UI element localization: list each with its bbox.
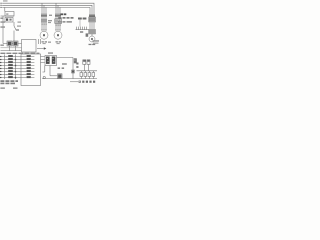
wire right verticals to contactor bbox=[90, 23, 94, 30]
small box mid bbox=[72, 70, 75, 73]
fuse box 2 bbox=[84, 73, 87, 77]
motor letters bbox=[43, 34, 45, 36]
text right of disconnect bbox=[18, 22, 22, 23]
label left of rail bbox=[76, 63, 78, 65]
overload outlines group A bbox=[41, 19, 46, 22]
relay box content bbox=[8, 42, 12, 46]
OL tick row 2 group A bbox=[42, 23, 43, 25]
wire from starter right bbox=[57, 57, 74, 59]
wire right vertical of pair bbox=[13, 22, 15, 26]
wire L small bbox=[43, 66, 45, 73]
dark details bbox=[0, 0, 99, 89]
contact bar group B bbox=[55, 13, 61, 16]
wire left vertical long bbox=[2, 16, 4, 44]
strip A side text specks bbox=[6, 56, 8, 75]
bottom-left text block rows bbox=[0, 80, 18, 84]
wire drops motor group B bbox=[55, 3, 57, 31]
wire control bus bbox=[1, 50, 22, 52]
contactor right outline bbox=[89, 30, 96, 34]
squiggle right bbox=[70, 81, 80, 82]
wire branch bus right bbox=[76, 29, 89, 31]
label right of rows bbox=[78, 18, 82, 20]
motor M1 circle bbox=[40, 31, 48, 39]
aux box below bbox=[5, 18, 13, 23]
comb text below bbox=[80, 31, 83, 33]
text under motor B bbox=[56, 41, 58, 42]
text under bus right bbox=[79, 81, 96, 83]
wire stubs right of enclosure bbox=[41, 57, 45, 63]
comp on bus bbox=[58, 74, 63, 79]
contactor marks right col bbox=[89, 30, 90, 33]
starter coils dark bbox=[46, 57, 50, 64]
enclosure box bbox=[21, 54, 41, 86]
disconnect diag bbox=[14, 26, 16, 30]
text left of mid switch bbox=[62, 63, 67, 64]
wire control row bbox=[3, 43, 22, 45]
OL tick row 2 group B bbox=[56, 24, 57, 26]
right pair box 1 bbox=[83, 60, 86, 65]
text left col 1 bbox=[0, 21, 5, 22]
text between groups bbox=[48, 20, 52, 21]
wire control bus 2 bbox=[1, 47, 22, 49]
wire L2 bus bbox=[2, 5, 92, 15]
wire stubs under relays bbox=[10, 46, 16, 51]
text above cover box bbox=[48, 52, 53, 54]
right pair tops bbox=[83, 60, 85, 62]
comb ticks bbox=[77, 27, 87, 30]
contact bar group A bbox=[41, 13, 47, 16]
feeder junction squares bbox=[15, 59, 16, 78]
label row above enclosure bbox=[0, 53, 39, 54]
OL content group B bbox=[56, 20, 57, 23]
wire horizontal under boxes bbox=[1, 15, 15, 17]
fuse stubs bbox=[81, 71, 93, 73]
text under motor M3 bbox=[89, 44, 92, 45]
arrow ticks above motor A bbox=[41, 29, 44, 31]
motor M3 circle bbox=[89, 36, 95, 42]
fuse box 3 bbox=[88, 73, 91, 77]
relay box 2 bbox=[13, 41, 18, 46]
wire drops motor group A bbox=[41, 3, 43, 31]
wire rows left side bbox=[0, 57, 26, 78]
wire starter down bbox=[49, 66, 51, 76]
text left aux bbox=[0, 18, 3, 19]
terminal strip B cells bbox=[27, 55, 31, 78]
text under motor A bbox=[42, 41, 44, 42]
wire to comp bbox=[50, 75, 58, 77]
fuse box 1 bbox=[80, 73, 83, 77]
paper background bbox=[0, 0, 100, 100]
arrow ticks above motor B bbox=[55, 29, 58, 31]
relay box 1 bbox=[7, 41, 12, 46]
comp on bus dark bbox=[58, 74, 61, 78]
right rail bbox=[77, 70, 98, 72]
starter box bbox=[45, 56, 57, 66]
transformer content bbox=[6, 13, 8, 15]
transformer box top-left bbox=[5, 12, 14, 17]
terminal strip A cells bbox=[8, 55, 13, 78]
mid switch label bbox=[74, 58, 77, 63]
wire label drop bbox=[79, 20, 81, 27]
panel cover box bbox=[22, 40, 37, 53]
wire stubs right of cover bbox=[38, 39, 40, 44]
bottom bus bbox=[42, 78, 97, 80]
wire L3 bus bbox=[2, 7, 90, 15]
wire mid vertical bbox=[72, 58, 74, 71]
label mid-top bbox=[61, 13, 64, 15]
wire pair drops bbox=[84, 64, 88, 70]
right pair box 2 bbox=[87, 60, 90, 65]
junction circle bbox=[43, 76, 45, 78]
wire rows right of strip B bbox=[31, 57, 34, 78]
mid text row 1 bbox=[59, 17, 74, 19]
overload box group B bbox=[55, 19, 62, 24]
text left col 2 bbox=[0, 26, 5, 27]
top-left tiny text bbox=[3, 0, 8, 1]
text top right corner bbox=[93, 40, 100, 41]
bus terminals left bbox=[1, 3, 2, 4]
vertical feeders bbox=[5, 55, 16, 80]
contact bar right group bbox=[89, 13, 95, 16]
text left of relays bbox=[0, 45, 4, 46]
mid text row 2 bbox=[59, 21, 72, 23]
left edge ticks bbox=[0, 56, 1, 78]
motor M2 circle bbox=[54, 31, 62, 39]
wire M3 lead bbox=[91, 34, 93, 36]
fuse hatch right col bbox=[89, 18, 90, 22]
fuse box 4 bbox=[92, 73, 95, 77]
wire L1 bus bbox=[2, 3, 94, 15]
wire drop from L3 to box bbox=[4, 7, 6, 11]
fuse block right outline bbox=[89, 17, 96, 22]
